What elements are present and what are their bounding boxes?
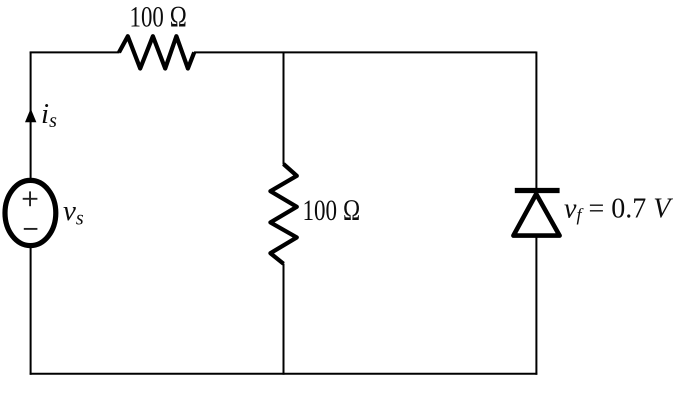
- resistor R2 100ohm vertical zigzag: [270, 164, 296, 264]
- wire top-right horizontal: [194, 51, 537, 53]
- wire middle vertical upper: [283, 52, 285, 165]
- voltage source V1 ellipse: [5, 180, 56, 245]
- plus sign: [23, 198, 38, 200]
- svg-text:100 Ω: 100 Ω: [130, 0, 188, 33]
- wire top-left horizontal: [30, 51, 120, 53]
- svg-text:vs: vs: [63, 195, 84, 230]
- svg-text:vf = 0.7 V: vf = 0.7 V: [564, 194, 673, 225]
- wire right vertical upper: [535, 52, 537, 191]
- current arrow i_s: [25, 109, 36, 123]
- minus sign: [24, 228, 38, 230]
- wire left vertical upper: [30, 52, 32, 179]
- wire bottom horizontal: [30, 373, 538, 375]
- svg-text:is: is: [41, 98, 57, 132]
- wire middle vertical lower: [283, 264, 285, 375]
- wire right vertical lower: [535, 237, 537, 375]
- svg-text:100 Ω: 100 Ω: [303, 194, 361, 227]
- diode D1 triangle: [513, 194, 559, 236]
- wire left vertical lower: [30, 248, 32, 375]
- resistor R1 100ohm horizontal zigzag: [119, 36, 194, 68]
- diode D1 cathode bar: [515, 188, 560, 193]
